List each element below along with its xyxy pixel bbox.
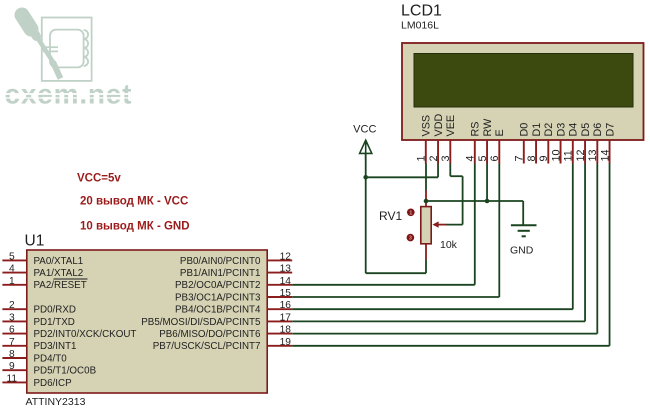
svg-text:PD2/INT0/XCK/CKOUT: PD2/INT0/XCK/CKOUT [34, 329, 137, 340]
svg-text:PA1/XTAL2: PA1/XTAL2 [34, 268, 84, 279]
svg-text:8: 8 [9, 349, 15, 360]
svg-text:16: 16 [280, 300, 292, 311]
svg-text:PB5/MOSI/DI/SDA/PCINT5: PB5/MOSI/DI/SDA/PCINT5 [141, 317, 261, 328]
svg-text:3: 3 [440, 155, 452, 161]
svg-text:PB6/MISO/DO/PCINT6: PB6/MISO/DO/PCINT6 [159, 329, 261, 340]
svg-text:ATTINY2313: ATTINY2313 [26, 396, 86, 408]
svg-text:6: 6 [489, 155, 501, 161]
svg-text:VEE: VEE [445, 115, 457, 137]
svg-text:1: 1 [416, 155, 428, 161]
svg-text:5: 5 [477, 155, 489, 161]
svg-text:8: 8 [526, 155, 538, 161]
svg-text:PD0/RXD: PD0/RXD [34, 305, 76, 316]
svg-text:PD4/T0: PD4/T0 [34, 353, 68, 364]
svg-text:5: 5 [9, 251, 15, 262]
svg-text:PD1/TXD: PD1/TXD [34, 317, 75, 328]
svg-text:D5: D5 [580, 123, 592, 137]
svg-text:D0: D0 [519, 123, 531, 137]
svg-text:10 вывод МК - GND: 10 вывод МК - GND [80, 221, 190, 233]
svg-text:GND: GND [510, 245, 534, 257]
svg-text:4: 4 [465, 155, 477, 161]
svg-text:3: 3 [409, 236, 412, 242]
svg-text:VCC=5v: VCC=5v [77, 173, 121, 185]
svg-text:10k: 10k [440, 239, 458, 251]
svg-text:D2: D2 [543, 123, 555, 137]
svg-text:LCD1: LCD1 [401, 3, 442, 20]
svg-text:D3: D3 [555, 123, 567, 137]
svg-text:14: 14 [280, 276, 292, 287]
svg-text:11: 11 [563, 150, 575, 161]
svg-text:7: 7 [9, 337, 15, 348]
svg-text:D6: D6 [592, 123, 604, 137]
svg-text:RV1: RV1 [379, 209, 402, 223]
svg-text:PA2/RESET: PA2/RESET [34, 280, 87, 291]
svg-text:RS: RS [470, 122, 482, 137]
svg-text:20 вывод МК - VCC: 20 вывод МК - VCC [80, 196, 188, 208]
svg-text:RW: RW [482, 118, 494, 137]
svg-text:U1: U1 [25, 233, 45, 250]
svg-text:E: E [494, 129, 506, 136]
svg-text:PD3/INT1: PD3/INT1 [34, 341, 77, 352]
svg-text:D4: D4 [568, 123, 580, 137]
svg-text:18: 18 [280, 325, 292, 336]
svg-text:4: 4 [9, 264, 15, 275]
svg-text:2: 2 [428, 155, 440, 161]
svg-text:D1: D1 [531, 123, 543, 137]
svg-text:12: 12 [575, 149, 587, 161]
svg-text:PB1/AIN1/PCINT1: PB1/AIN1/PCINT1 [180, 268, 261, 279]
svg-text:PB0/AIN0/PCINT0: PB0/AIN0/PCINT0 [180, 256, 261, 267]
svg-text:1: 1 [409, 210, 412, 216]
svg-text:2: 2 [9, 300, 15, 311]
svg-text:14: 14 [599, 149, 611, 161]
svg-text:10: 10 [550, 149, 562, 161]
svg-text:VSS: VSS [421, 115, 433, 137]
svg-text:15: 15 [280, 288, 292, 299]
svg-text:7: 7 [514, 155, 526, 161]
svg-text:13: 13 [587, 149, 599, 161]
svg-text:PD5/T1/OC0B: PD5/T1/OC0B [34, 366, 97, 377]
svg-text:PD6/ICP: PD6/ICP [34, 378, 73, 389]
svg-text:13: 13 [280, 264, 292, 275]
svg-text:11: 11 [7, 373, 18, 384]
svg-text:PB4/OC1B/PCINT4: PB4/OC1B/PCINT4 [175, 305, 261, 316]
svg-text:3: 3 [9, 312, 15, 323]
svg-text:LM016L: LM016L [401, 20, 439, 32]
svg-text:PB3/OC1A/PCINT3: PB3/OC1A/PCINT3 [175, 292, 261, 303]
svg-text:PB7/USCK/SCL/PCINT7: PB7/USCK/SCL/PCINT7 [153, 341, 261, 352]
svg-text:VCC: VCC [353, 124, 376, 136]
svg-text:17: 17 [280, 312, 292, 323]
svg-text:12: 12 [280, 251, 292, 262]
svg-text:9: 9 [538, 155, 550, 161]
svg-text:D7: D7 [604, 123, 616, 137]
svg-text:9: 9 [9, 361, 15, 372]
svg-text:1: 1 [9, 276, 15, 287]
svg-text:6: 6 [9, 325, 15, 336]
svg-text:PB2/OC0A/PCINT2: PB2/OC0A/PCINT2 [175, 280, 260, 291]
svg-text:PA0/XTAL1: PA0/XTAL1 [34, 256, 84, 267]
svg-text:19: 19 [280, 337, 292, 348]
svg-text:VDD: VDD [433, 114, 445, 137]
